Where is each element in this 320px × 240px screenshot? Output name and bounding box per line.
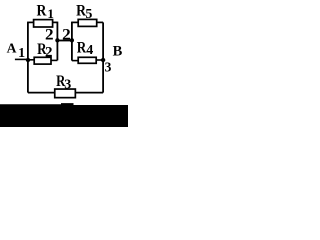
svg-text:3: 3 [105,60,112,75]
wire: R1 right lead [53,21,58,23]
wire: R5 right lead [97,21,103,23]
svg-text:R: R [77,40,87,57]
resistor R4 [78,57,96,63]
svg-text:5: 5 [85,7,92,22]
node 2 right junction [70,38,74,42]
node 2 left junction [55,38,59,42]
svg-text:2: 2 [45,45,53,61]
wire: R4 left lead [72,60,79,62]
resistor R3 [55,89,76,98]
wire: bottom link [28,92,103,94]
svg-text:1: 1 [47,6,54,21]
wire: R4 right lead [96,59,103,61]
wire: mid-right rail [71,22,73,61]
junction node 1 (A) [26,58,30,62]
wire: mid-left rail [56,22,58,61]
junction node 3 (B) [101,58,105,62]
wire: R5 left lead [72,21,79,23]
resistor R1 [34,20,53,27]
wire: R2 right lead [51,59,57,61]
wire: left rail node1 [27,22,29,92]
svg-text:1: 1 [18,46,25,61]
wire: R1 left lead [27,21,34,23]
wire: A input stub [15,58,28,60]
svg-text:2: 2 [62,26,71,43]
resistor R2 [34,57,51,64]
svg-text:3: 3 [64,77,71,92]
svg-text:4: 4 [86,43,93,58]
svg-text:R: R [37,3,47,20]
resistor R5 [78,19,97,26]
black footer bar [0,103,128,127]
wire: R2 left lead [28,59,35,61]
wire: node 2 link [57,40,72,42]
wire: right rail node3 [102,22,104,92]
svg-text:A: A [7,41,17,56]
svg-text:B: B [113,44,123,60]
